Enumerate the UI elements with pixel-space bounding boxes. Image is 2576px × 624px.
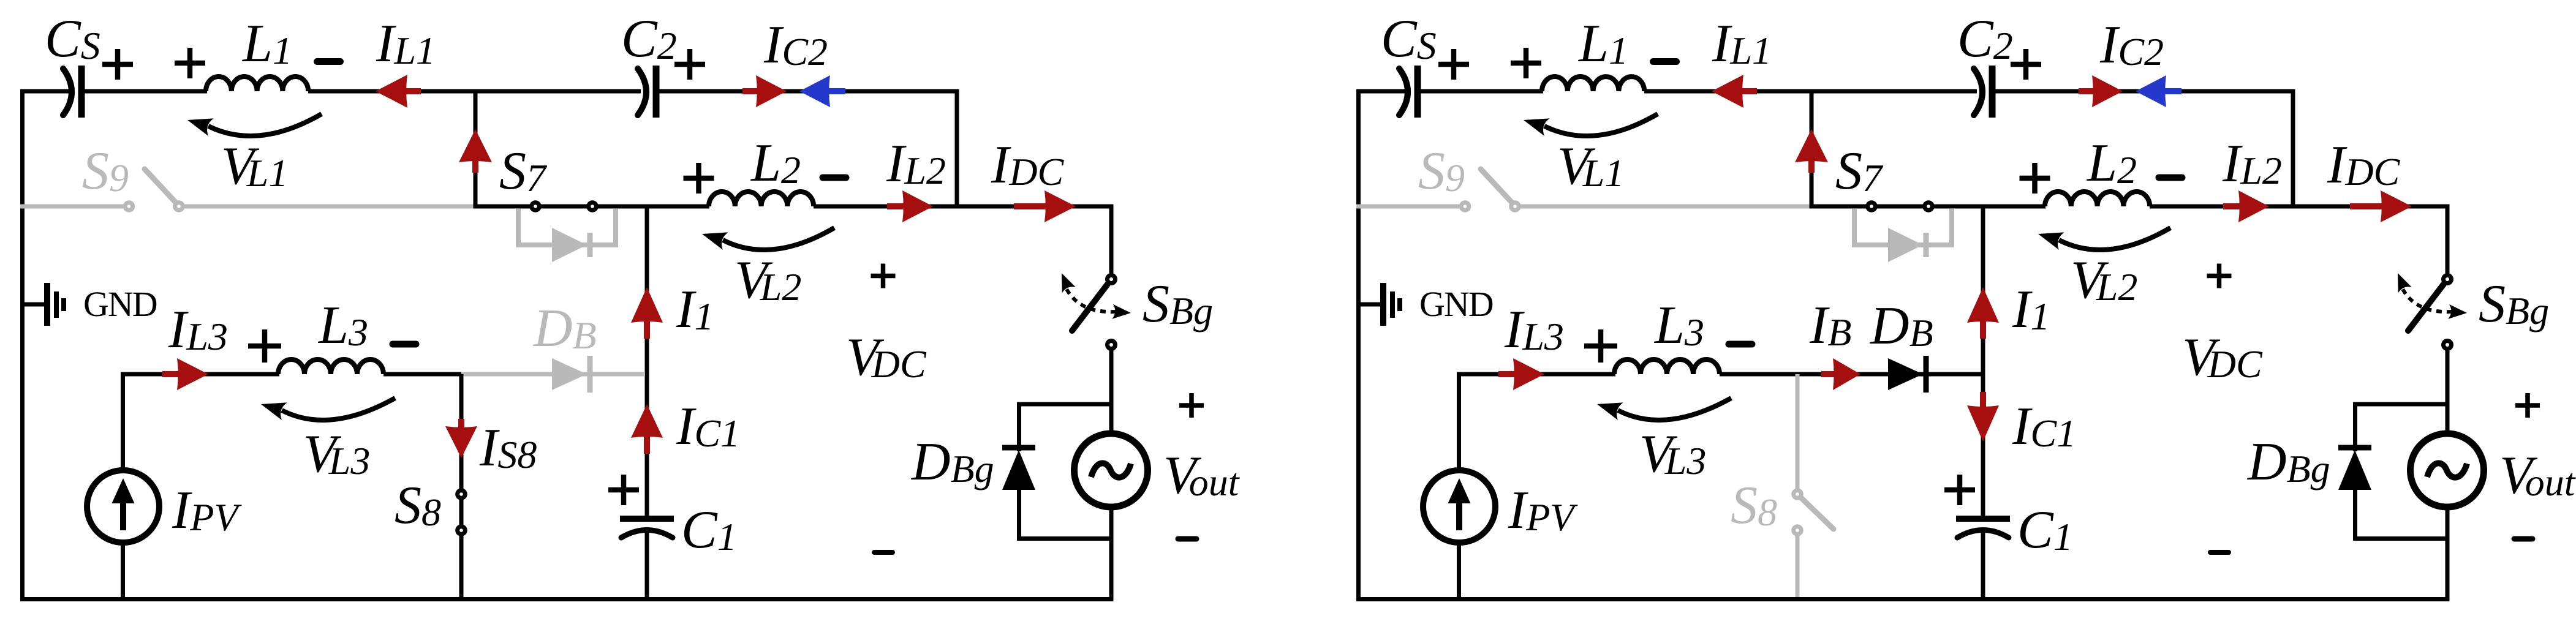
wire: IPV column top (right circuit) bbox=[1457, 374, 1461, 472]
inductor L1 (right circuit) bbox=[1542, 77, 1644, 91]
wire: mid bus from S7 corner to L2 (left circuit) bbox=[475, 205, 709, 207]
switch SBg actuation arc (dashed) (right circuit) bbox=[2398, 273, 2467, 319]
wire: DBg branch bottom (right circuit) bbox=[2353, 536, 2447, 541]
capacitor C1 (left circuit) bbox=[620, 519, 674, 538]
wire: center column from C1 to bottom bus (left circuit) bbox=[645, 530, 649, 597]
wire: DBg branch lower segment (left circuit) bbox=[1017, 489, 1021, 541]
wire: Vout to bottom bus (left circuit) bbox=[1109, 509, 1114, 597]
plus sign: L3 left polarity (right circuit) bbox=[1584, 329, 1617, 363]
wire: drop from mid bus to SBg (right circuit) bbox=[2446, 205, 2450, 275]
wire: SBg to Vout source (left circuit) bbox=[1109, 350, 1114, 432]
plus sign: C2 polarity (left circuit) bbox=[674, 49, 705, 80]
switch SBg blade (left circuit) bbox=[1072, 284, 1108, 331]
wire: IPV column bottom (right circuit) bbox=[1457, 544, 1461, 597]
minus sign: L2 right polarity (right circuit) bbox=[2159, 175, 2182, 181]
diode DB (gray) (left circuit) bbox=[552, 356, 590, 393]
minus sign: VDC bottom (right circuit) bbox=[2210, 550, 2229, 555]
inductor L3 (left circuit) bbox=[278, 359, 383, 374]
wire: top bus, CS to L1 (left circuit) bbox=[81, 89, 207, 94]
wire: DBg branch bottom (left circuit) bbox=[1017, 536, 1111, 541]
current arrow IL2 (left circuit) bbox=[887, 190, 933, 222]
current arrow IC2 (red, rightward) (right circuit) bbox=[2079, 75, 2123, 107]
wire: L3 to S8 node (black) (left circuit) bbox=[383, 372, 464, 377]
ground symbol GND (left circuit) bbox=[20, 283, 64, 326]
capacitor C2 (right circuit) bbox=[1974, 66, 1992, 118]
wire: DBg branch top (right circuit) bbox=[2355, 402, 2448, 407]
plus sign: C1 polarity (left circuit) bbox=[608, 475, 639, 505]
minus sign: L3 right polarity (right circuit) bbox=[1729, 341, 1752, 348]
switch S7 terminal (right) (left circuit) bbox=[586, 200, 599, 212]
switch SBg terminal (top) (right circuit) bbox=[2441, 273, 2453, 285]
capacitor CS (right circuit) bbox=[1399, 66, 1418, 118]
wire: center column from C1 to bottom bus (right circuit) bbox=[1981, 530, 1985, 597]
inductor L3 (right circuit) bbox=[1614, 359, 1720, 374]
switch SBg terminal (top) (left circuit) bbox=[1105, 273, 1117, 285]
current arrow I1 (upward) (left circuit) bbox=[631, 287, 663, 339]
capacitor C1 (right circuit) bbox=[1956, 519, 2010, 538]
wire: mid bus from L2 to SBg corner (left circuit) bbox=[814, 205, 1114, 209]
current arrow IS8 (downward) (left circuit) bbox=[445, 419, 477, 458]
plus sign: L1 left polarity (left circuit) bbox=[175, 48, 205, 78]
wire: top bus, left edge to capacitor CS (left circuit) bbox=[20, 89, 69, 94]
wire: top bus, C2 to right corner with drop (left circuit) bbox=[656, 91, 957, 206]
plus sign: L2 left polarity (left circuit) bbox=[684, 163, 714, 194]
diode DB (black) (right circuit) bbox=[1888, 356, 1926, 393]
wire: L3 row from IPV column to L3 (right circuit) bbox=[1457, 372, 1615, 377]
ground symbol GND (right circuit) bbox=[1356, 283, 1400, 326]
inductor L2 (left circuit) bbox=[709, 192, 814, 206]
wire: Vout to bottom bus (right circuit) bbox=[2446, 509, 2450, 597]
switch S8 (gray, open) (right circuit) bbox=[1791, 374, 1834, 597]
current source IPV (left circuit) bbox=[87, 470, 159, 543]
wire: mid bus from L2 to SBg corner (right circuit) bbox=[2150, 205, 2450, 209]
inductor L1 (left circuit) bbox=[206, 77, 308, 91]
body diode of S7 (gray) (left circuit) bbox=[518, 209, 616, 262]
current arrow IL2 (right circuit) bbox=[2223, 190, 2269, 222]
capacitor CS (left circuit) bbox=[63, 66, 81, 118]
voltage arc VL1 (left circuit) bbox=[187, 114, 322, 136]
wire: top bus, L1 to C2 (right circuit) bbox=[1644, 89, 1977, 94]
wire: top bus, CS to L1 (right circuit) bbox=[1418, 89, 1543, 94]
diode DBg (left circuit) bbox=[1002, 448, 1035, 490]
plus sign: L3 left polarity (left circuit) bbox=[248, 329, 281, 363]
wire: drop from top bus to S7 node (left circuit) bbox=[474, 91, 478, 206]
plus sign: L1 left polarity (right circuit) bbox=[1511, 48, 1541, 78]
wire: left vertical bus (right circuit) bbox=[1356, 91, 1361, 597]
wire: top bus, C2 to right corner with drop (right circuit) bbox=[1992, 91, 2293, 206]
voltage source Vout (left circuit) bbox=[1075, 434, 1148, 507]
minus sign: L2 right polarity (left circuit) bbox=[823, 175, 846, 181]
wire: IPV column bottom (left circuit) bbox=[121, 544, 125, 597]
wire: L3 to diode DB (black) (right circuit) bbox=[1720, 372, 1983, 377]
plus sign: Vout top (left circuit) bbox=[1179, 393, 1204, 418]
plus sign: C1 polarity (right circuit) bbox=[1944, 475, 1975, 505]
svg-text:GND: GND bbox=[83, 284, 157, 324]
wire: SBg to Vout source (right circuit) bbox=[2446, 350, 2450, 432]
current arrow IC1 (downward) (right circuit) bbox=[1967, 392, 1999, 442]
plus sign: VDC top (right circuit) bbox=[2207, 264, 2232, 288]
wire: IPV column top (left circuit) bbox=[121, 374, 125, 472]
switch SBg terminal (bottom) (left circuit) bbox=[1105, 339, 1117, 351]
current arrow IC1 (upward) (left circuit) bbox=[631, 404, 663, 454]
current arrow IB (right circuit) bbox=[1821, 358, 1860, 390]
wire: drop from top bus to S7 node (right circuit) bbox=[1810, 91, 1814, 206]
current arrow IL1 (right circuit) bbox=[1712, 75, 1757, 108]
plus sign: C2 polarity (right circuit) bbox=[2011, 49, 2041, 80]
current arrow IC2 (blue, leftward) (left circuit) bbox=[799, 75, 845, 107]
plus sign: CS polarity (right circuit) bbox=[1438, 49, 1469, 80]
current arrow I1 (upward) (right circuit) bbox=[1967, 287, 1999, 339]
wire: S8 node to center column through DB (gray) (left circuit) bbox=[461, 372, 645, 377]
current arrow IL3 (right circuit) bbox=[1498, 358, 1544, 390]
diode DBg (right circuit) bbox=[2338, 448, 2371, 490]
wire: bottom bus (left circuit) bbox=[20, 597, 1114, 601]
switch SBg terminal (bottom) (right circuit) bbox=[2441, 339, 2453, 351]
current arrow on S7 drop (upward) (left circuit) bbox=[459, 129, 492, 173]
minus sign: Vout bottom (left circuit) bbox=[1178, 536, 1196, 542]
minus sign: L1 right polarity (right circuit) bbox=[1653, 58, 1677, 65]
wire: top bus, left edge to capacitor CS (right circuit) bbox=[1356, 89, 1405, 94]
current arrow IC2 (blue, leftward) (right circuit) bbox=[2136, 75, 2181, 107]
voltage arc VL3 (left circuit) bbox=[261, 398, 395, 420]
switch S7 terminal (left) (left circuit) bbox=[529, 200, 542, 212]
switch S7 terminal (right) (right circuit) bbox=[1922, 200, 1935, 212]
plus sign: CS polarity (left circuit) bbox=[102, 49, 133, 80]
capacitor C2 (left circuit) bbox=[638, 66, 656, 118]
wire: top bus, L1 to C2 (left circuit) bbox=[308, 89, 641, 94]
plus sign: VDC top (left circuit) bbox=[871, 264, 896, 288]
current arrow IDC (right circuit) bbox=[2350, 190, 2412, 222]
wire: DBg branch lower segment (right circuit) bbox=[2353, 489, 2357, 541]
wire: DBg branch top (left circuit) bbox=[1019, 402, 1112, 407]
current arrow IL1 (left circuit) bbox=[376, 75, 421, 108]
inductor L2 (right circuit) bbox=[2045, 192, 2150, 206]
current source IPV (right circuit) bbox=[1423, 470, 1495, 543]
voltage arc VL3 (right circuit) bbox=[1597, 398, 1731, 420]
voltage arc VL2 (right circuit) bbox=[2038, 228, 2170, 250]
switch S9 (gray, open) (left circuit) bbox=[20, 169, 474, 212]
switch S9 (gray, open) (right circuit) bbox=[1356, 169, 1810, 212]
wire: drop from mid bus to SBg (left circuit) bbox=[1109, 205, 1114, 275]
current arrow on S7 drop (upward) (right circuit) bbox=[1795, 129, 1828, 173]
current arrow IC2 (red, rightward) (left circuit) bbox=[742, 75, 787, 107]
switch S8 (black, closed) (left circuit) bbox=[455, 374, 467, 597]
switch SBg actuation arc (dashed) (left circuit) bbox=[1062, 273, 1131, 319]
switch S7 terminal (left) (right circuit) bbox=[1865, 200, 1878, 212]
plus sign: Vout top (right circuit) bbox=[2515, 393, 2540, 418]
minus sign: Vout bottom (right circuit) bbox=[2514, 536, 2533, 542]
minus sign: L3 right polarity (left circuit) bbox=[393, 341, 416, 348]
wire: DBg branch upper segment (left circuit) bbox=[1017, 402, 1021, 452]
current arrow IL3 (left circuit) bbox=[162, 358, 208, 390]
wire: mid bus from S7 corner to L2 (right circuit) bbox=[1811, 205, 2045, 207]
wire: bottom bus (right circuit) bbox=[1356, 597, 2450, 601]
body diode of S7 (gray) (right circuit) bbox=[1854, 209, 1952, 262]
wire: center column from mid bus to C1 (left circuit) bbox=[645, 206, 649, 516]
minus sign: L1 right polarity (left circuit) bbox=[317, 58, 341, 65]
wire: left vertical bus (left circuit) bbox=[20, 91, 25, 597]
minus sign: VDC bottom (left circuit) bbox=[874, 550, 893, 555]
plus sign: L2 left polarity (right circuit) bbox=[2020, 163, 2050, 194]
svg-text:GND: GND bbox=[1419, 284, 1493, 324]
wire: center column from mid bus to C1 (right circuit) bbox=[1981, 206, 1985, 516]
wire: DBg branch upper segment (right circuit) bbox=[2353, 402, 2357, 452]
voltage arc VL2 (left circuit) bbox=[702, 228, 834, 250]
wire: L3 row from IPV column to L3 (left circuit) bbox=[121, 372, 279, 377]
voltage arc VL1 (right circuit) bbox=[1524, 114, 1658, 136]
switch SBg blade (right circuit) bbox=[2408, 284, 2444, 331]
current arrow IDC (left circuit) bbox=[1014, 190, 1076, 222]
voltage source Vout (right circuit) bbox=[2411, 434, 2484, 507]
